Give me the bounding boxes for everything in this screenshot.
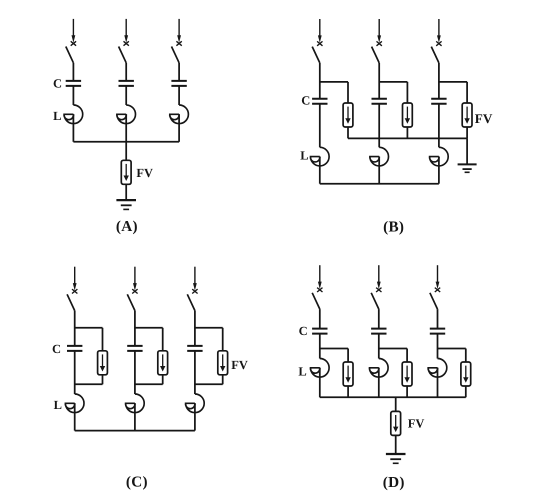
capacitor C (phase 2) [371,329,386,334]
incoming supply line with arrow (phase 3) [435,265,440,292]
arrester branch lower wire (phase 2) [162,375,164,385]
wire bus to arrester FV [125,142,127,161]
incoming supply line with arrow (phase 2) [376,265,381,292]
incoming supply line with arrow (phase 3) [436,19,441,46]
arrester branch reconnect wire (phase 2) [135,383,163,385]
reactor L (phase 1) [310,359,329,378]
capacitor C (phase 1) [67,346,82,351]
svg-text:FV: FV [408,417,425,431]
wire reactor to bus (phase 1) [319,368,321,398]
svg-text:(A): (A) [116,218,138,235]
wire tap to damping branch (phase 3) [438,348,466,350]
damping branch upper wire (phase 3) [465,349,467,363]
arrester branch lower wire (phase 3) [222,375,224,385]
wire capacitor to reactor (phase 1) [319,104,321,148]
ground [386,454,406,463]
wire switch to capacitor (phase 1) [74,311,76,346]
svg-text:C: C [299,324,308,338]
switch blade (phase 2) [372,47,380,63]
svg-text:C: C [301,94,310,108]
wire reactor to bus (phase 2) [378,157,380,184]
wire capacitor to reactor (phase 1) [74,351,76,394]
wire reactor to bus (phase 3) [437,368,439,398]
incoming supply line with arrow (phase 3) [176,19,181,46]
reactor L (phase 1) [64,105,83,124]
neutral bus wire [320,396,466,398]
arrester common wire [348,137,467,139]
incoming supply line with arrow (phase 2) [132,267,137,294]
wire switch to capacitor (phase 2) [378,63,380,99]
reactor L (phase 3) [186,394,205,413]
svg-text:L: L [300,148,308,162]
switch blade (phase 3) [430,293,438,309]
incoming supply line with arrow (phase 1) [317,265,322,292]
svg-text:C: C [53,76,62,90]
switch blade (phase 2) [127,294,135,310]
ground [116,200,136,209]
capacitor C (phase 2) [372,99,387,104]
damping branch upper wire (phase 2) [406,349,408,363]
arrester branch upper wire (phase 1) [102,328,104,351]
svg-text:L: L [54,398,62,412]
wire switch to capacitor (phase 3) [438,63,440,99]
damping arrester (phase 1) [343,362,353,386]
ground [458,164,477,172]
diagram (B) [300,19,493,235]
capacitor C (phase 3) [430,329,445,334]
svg-text:(B): (B) [383,218,404,235]
surge arrester FV (phase 1) [98,351,108,375]
incoming supply line with arrow (phase 1) [71,19,76,46]
reactor L (phase 3) [428,359,447,378]
incoming supply line with arrow (phase 2) [377,19,382,46]
wire capacitor to reactor (phase 1) [72,86,74,105]
wire arrester to ground [395,435,397,454]
surge arrester FV (phase 2) [403,103,413,127]
arrester branch upper wire (phase 2) [162,328,164,351]
surge arrester FV [121,160,131,184]
wire switch to capacitor (phase 2) [125,63,127,81]
switch blade (phase 2) [119,47,127,63]
arrester branch upper wire (phase 1) [347,82,349,103]
wire arrester to ground [125,184,127,200]
svg-text:C: C [52,342,61,356]
arrester branch upper wire (phase 3) [466,82,468,103]
reactor L (phase 2) [126,394,145,413]
surge arrester FV (phase 1) [343,103,353,127]
wire reactor to bus (phase 3) [194,403,196,430]
reactor L (phase 2) [369,359,388,378]
switch blade (phase 1) [67,294,75,310]
damping arrester (phase 2) [402,362,412,386]
wire capacitor to reactor (phase 3) [178,86,180,105]
switch blade (phase 3) [172,47,180,63]
capacitor C (phase 3) [431,99,446,104]
reactor L (phase 1) [65,394,84,413]
arrester branch lower wire (phase 1) [347,127,349,138]
capacitor C (phase 1) [66,81,81,86]
reactor L (phase 3) [170,105,189,124]
diagram (C) [52,267,248,491]
wire switch to capacitor (phase 3) [178,63,180,81]
incoming supply line with arrow (phase 3) [192,267,197,294]
damping branch lower wire (phase 3) [465,386,467,397]
wire switch to capacitor (phase 2) [134,311,136,346]
svg-text:(D): (D) [383,474,405,491]
wire switch to capacitor (phase 3) [194,311,196,346]
wire tap to arrester branch (phase 1) [320,81,348,83]
incoming supply line with arrow (phase 2) [124,19,129,46]
svg-text:FV: FV [231,358,248,372]
wire reactor to bus (phase 2) [378,368,380,398]
damping branch lower wire (phase 1) [347,386,349,397]
wire capacitor to reactor (phase 2) [378,334,380,359]
wire capacitor to reactor (phase 3) [194,351,196,394]
wire capacitor to reactor (phase 2) [378,104,380,148]
wire switch to capacitor (phase 2) [378,309,380,329]
wire tap to arrester branch (phase 1) [75,327,103,329]
damping branch upper wire (phase 1) [347,349,349,363]
switch blade (phase 3) [187,294,195,310]
wire reactor to bus (phase 3) [178,114,180,142]
wire arrester common to ground [466,138,468,164]
wire capacitor to reactor (phase 1) [319,334,321,359]
diagram (D) [298,265,470,491]
wire switch to capacitor (phase 3) [437,309,439,329]
switch blade (phase 1) [312,47,320,63]
svg-text:FV: FV [475,111,493,126]
incoming supply line with arrow (phase 1) [317,19,322,46]
arrester branch reconnect wire (phase 3) [195,383,223,385]
capacitor C (phase 3) [187,346,202,351]
wire tap to damping branch (phase 2) [379,348,407,350]
arrester branch upper wire (phase 3) [222,328,224,351]
wire switch to capacitor (phase 1) [319,309,321,329]
reactor L (phase 2) [370,147,389,166]
capacitor C (phase 1) [312,329,327,334]
capacitor C (phase 3) [171,81,186,86]
damping branch lower wire (phase 2) [406,386,408,397]
wire tap to arrester branch (phase 2) [379,81,407,83]
wire capacitor to reactor (phase 2) [134,351,136,394]
wire tap to damping branch (phase 1) [320,348,348,350]
wire capacitor to reactor (phase 2) [125,86,127,105]
capacitor C (phase 2) [119,81,134,86]
arrester branch lower wire (phase 2) [406,127,408,138]
wire tap to arrester branch (phase 3) [195,327,223,329]
wire reactor to bus (phase 1) [74,403,76,430]
damping arrester (phase 3) [461,362,471,386]
switch blade (phase 2) [371,293,379,309]
wire switch to capacitor (phase 1) [72,63,74,81]
arrester branch lower wire (phase 1) [102,375,104,385]
neutral bus wire [320,183,439,185]
svg-text:FV: FV [136,166,153,180]
neutral bus wire [73,141,179,143]
surge arrester FV [391,411,401,435]
wire bus to arrester FV [395,397,397,411]
surge arrester FV (phase 2) [158,351,168,375]
wire tap to arrester branch (phase 3) [439,81,467,83]
wire tap to arrester branch (phase 2) [135,327,163,329]
surge arrester FV (phase 3) [462,103,472,127]
wire capacitor to reactor (phase 3) [437,334,439,359]
wire switch to capacitor (phase 1) [319,63,321,99]
switch blade (phase 3) [431,47,439,63]
wire capacitor to reactor (phase 3) [438,104,440,148]
arrester branch reconnect wire (phase 1) [75,383,103,385]
arrester branch upper wire (phase 2) [406,82,408,103]
arrester branch lower wire (phase 3) [466,127,468,138]
svg-text:L: L [53,109,61,123]
diagram (A) [53,19,188,235]
surge arrester FV (phase 3) [218,351,228,375]
reactor L (phase 3) [430,147,449,166]
neutral bus wire [75,430,195,432]
reactor L (phase 1) [310,147,329,166]
wire reactor to bus (phase 1) [319,157,321,184]
wire reactor to bus (phase 1) [72,114,74,142]
switch blade (phase 1) [66,47,74,63]
incoming supply line with arrow (phase 1) [72,267,77,294]
wire reactor to bus (phase 3) [438,157,440,184]
capacitor C (phase 2) [127,346,142,351]
capacitor C (phase 1) [312,99,327,104]
wire reactor to bus (phase 2) [134,403,136,430]
svg-text:(C): (C) [126,473,148,490]
switch blade (phase 1) [312,293,320,309]
wire reactor to bus (phase 2) [125,114,127,142]
svg-text:L: L [298,365,306,379]
reactor L (phase 2) [117,105,136,124]
